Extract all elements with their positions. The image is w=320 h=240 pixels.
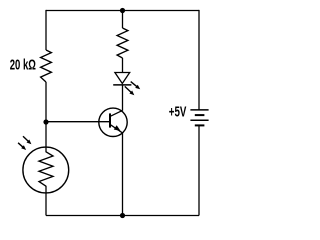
wire top rail: [46, 10, 199, 12]
wire resistor to LED: [122, 58, 124, 73]
wire left middle segment: [45, 82, 47, 152]
battery +5V: [190, 110, 208, 126]
wire bottom rail: [46, 215, 199, 217]
wire left lower segment: [45, 186, 47, 216]
wire middle upper segment: [122, 11, 124, 29]
wire right upper segment: [198, 10, 200, 110]
svg-text:+5V: +5V: [169, 105, 187, 121]
node bottom junction: [120, 213, 125, 218]
wire right lower segment: [198, 125, 200, 215]
LED emission arrow 2: [125, 86, 135, 95]
wire left upper segment: [45, 10, 47, 50]
LED D1: [113, 73, 131, 85]
photoresistor light arrow 1: [23, 136, 31, 144]
node base junction: [43, 119, 48, 124]
wire base: [46, 121, 110, 123]
node top junction: [120, 8, 125, 13]
resistor middle: [117, 28, 128, 58]
LED emission arrow 1: [131, 82, 141, 90]
label +5V: [169, 105, 187, 121]
photoresistor light arrow 2: [18, 143, 26, 150]
photoresistor LDR: [23, 147, 69, 193]
wire transistor to bottom: [122, 133, 124, 216]
svg-text:20 kΩ: 20 kΩ: [10, 58, 36, 74]
transistor Q1: [99, 108, 127, 136]
resistor 20 kOhm: [41, 50, 52, 82]
wire LED to transistor: [122, 85, 124, 111]
label 20 kOhm: [10, 58, 36, 74]
